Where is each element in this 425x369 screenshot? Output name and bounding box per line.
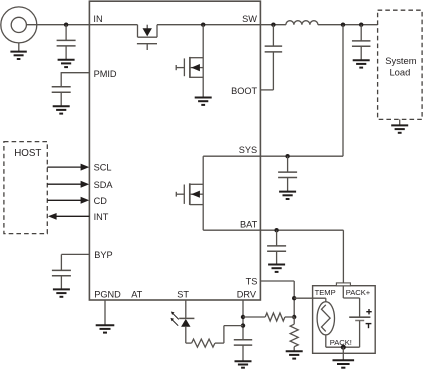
wire L1 to load	[318, 24, 378, 26]
svg-text:DRV: DRV	[237, 290, 257, 300]
wire SYS node down	[342, 25, 344, 157]
svg-text:SDA: SDA	[94, 180, 114, 190]
node output cap junction	[359, 23, 363, 27]
wire BAT to pack	[342, 230, 344, 283]
wire connector to ground	[18, 43, 20, 51]
wire IN	[26, 24, 89, 26]
wire SDA arrow	[47, 183, 81, 185]
svg-text:TEMP: TEMP	[315, 288, 336, 297]
node PACK- junction	[341, 345, 346, 350]
capacitor C7 (BAT)	[267, 245, 286, 247]
capacitor C4 (BOOT)	[265, 45, 283, 47]
LED D1	[179, 317, 194, 319]
label battery minus	[366, 323, 372, 325]
LED arrow 2	[172, 320, 178, 326]
svg-text:Load: Load	[389, 66, 410, 77]
capacitor C2 (PMID)	[52, 86, 71, 88]
resistor R2	[265, 313, 285, 321]
wire IN rail	[89, 24, 137, 26]
wire to C7	[276, 230, 278, 246]
wire pack bottom	[326, 346, 360, 348]
wire C4 to BOOT pin	[272, 52, 274, 90]
wire PACK+ lead	[342, 286, 344, 298]
svg-text:SW: SW	[242, 14, 257, 24]
wire SYS interior	[203, 155, 260, 157]
input connector J1	[1, 7, 37, 43]
wire SW	[260, 24, 286, 26]
svg-text:ST: ST	[177, 290, 189, 300]
LED arrow 1	[173, 313, 179, 319]
wire rail to SW	[157, 24, 260, 26]
ground at C3	[53, 288, 70, 290]
inductor L1	[286, 21, 318, 25]
transistor Q3	[202, 156, 204, 230]
svg-text:System: System	[385, 55, 416, 66]
wire R1 to DRV node	[215, 342, 224, 344]
transistor Q1 (input FET)	[137, 25, 139, 38]
ground at C7	[268, 264, 285, 266]
svg-text:CD: CD	[94, 196, 108, 206]
wire PMID	[61, 72, 89, 74]
IC body U1	[89, 1, 260, 300]
wire DRV to R2	[243, 316, 265, 318]
wire to C5	[360, 25, 362, 41]
battery pack box	[313, 286, 376, 354]
resistor R3	[290, 324, 298, 347]
wire to C6	[287, 156, 289, 172]
svg-text:AT: AT	[131, 290, 142, 300]
ground at C1	[58, 59, 75, 61]
wire TS	[260, 280, 294, 282]
node SYS junction	[341, 23, 345, 27]
wire ST pin	[185, 300, 187, 318]
ground at pack	[333, 359, 355, 361]
wire BAT	[260, 229, 343, 231]
wire TEMP	[294, 297, 326, 299]
HOST box	[4, 142, 47, 234]
wire C3 to ground	[60, 276, 62, 289]
svg-text:PMID: PMID	[94, 69, 117, 79]
capacitor C8 (DRV)	[234, 339, 252, 341]
wire pack to ground	[342, 347, 344, 360]
node DRV junction 2	[241, 323, 245, 327]
wire SYS	[260, 155, 343, 157]
node IN bypass junction	[64, 23, 68, 27]
wire PGND	[104, 300, 106, 325]
wire BAT interior	[203, 229, 260, 231]
node BOOT cap junction	[271, 23, 275, 27]
wire BYP	[61, 253, 89, 255]
wire junction to C1	[65, 25, 67, 41]
ground at C2	[53, 105, 70, 107]
capacitor C5 (SYS out)	[352, 40, 371, 42]
capacitor C1 (IN)	[57, 39, 76, 41]
capacitor C3 (BYP)	[52, 269, 71, 271]
ground at Q2 source	[195, 97, 212, 99]
node TS-TEMP junction	[292, 296, 296, 300]
wire LED to R1	[186, 342, 192, 344]
node BAT cap junction	[274, 228, 278, 232]
battery BT1	[349, 316, 370, 318]
label battery plus	[366, 311, 371, 313]
wire DRV pin	[242, 300, 244, 340]
node SYS cap junction	[285, 154, 289, 158]
wire SCL arrow	[47, 166, 81, 168]
wire R2 to TS node	[285, 316, 294, 318]
wire C7 to ground	[276, 251, 278, 264]
wire C6 to ground	[287, 178, 289, 192]
wire C8 to ground	[242, 345, 244, 361]
PACK+ connector bar	[336, 283, 350, 286]
svg-text:TS: TS	[246, 277, 258, 287]
wire CD arrow	[47, 199, 81, 201]
svg-text:SCL: SCL	[94, 163, 112, 173]
svg-text:IN: IN	[93, 14, 102, 24]
transistor Q2	[202, 25, 204, 98]
wire to C4	[272, 25, 274, 46]
ground at System Load	[391, 124, 408, 126]
wire C1 to ground	[65, 46, 67, 60]
node TS divider junction	[292, 315, 296, 319]
svg-text:INT: INT	[94, 212, 109, 222]
ground at C8	[235, 360, 252, 362]
svg-text:BOOT: BOOT	[231, 86, 257, 96]
capacitor C6 (SYS)	[278, 171, 297, 173]
ground at connector	[10, 51, 26, 53]
svg-text:BYP: BYP	[94, 250, 112, 260]
resistor R1	[192, 339, 215, 347]
node Q2 drain junction	[201, 23, 205, 27]
wire C5 to ground	[360, 46, 362, 60]
System Load box	[378, 10, 423, 119]
wire C2 to ground	[60, 92, 62, 106]
node DRV junction 1	[241, 315, 245, 319]
ground at C5	[353, 59, 370, 61]
svg-text:BAT: BAT	[240, 219, 258, 229]
svg-text:PGND: PGND	[94, 290, 121, 300]
ground at PGND	[96, 324, 115, 326]
svg-text:PACK!: PACK!	[330, 338, 352, 347]
thermistor RT1	[317, 302, 334, 335]
ground at R3	[286, 350, 303, 352]
wire load to ground	[399, 119, 401, 125]
svg-text:PACK+: PACK+	[346, 288, 371, 297]
wire INT arrow	[56, 215, 89, 217]
ground at C6	[279, 191, 296, 193]
svg-text:SYS: SYS	[239, 145, 257, 155]
svg-text:HOST: HOST	[14, 148, 41, 159]
